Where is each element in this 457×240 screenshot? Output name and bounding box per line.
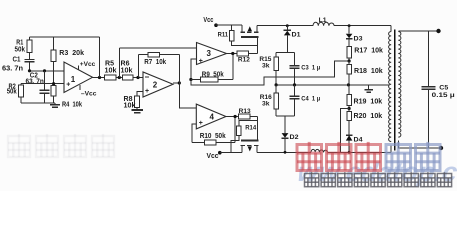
label R12 (238, 57, 250, 64)
svg-text:+: + (199, 120, 203, 127)
wire op3 plus input lead (191, 59, 197, 80)
label C1 63.7n (2, 56, 23, 72)
wire op2 output down to op4 (179, 83, 196, 108)
diode D2 (282, 116, 289, 153)
node output plus terminal (436, 29, 440, 33)
label R5 10k (105, 60, 117, 74)
svg-text:D2: D2 (290, 134, 299, 141)
node op2 output (178, 81, 181, 84)
wire op2 output (173, 82, 179, 84)
diode D3 (346, 26, 353, 47)
svg-text:D4: D4 (354, 137, 363, 144)
resistor R5 (105, 75, 123, 80)
wire op1 non-inverting input line (21, 83, 64, 85)
node D4 rail (348, 151, 351, 154)
node ground bus chain (347, 83, 350, 86)
svg-text:C4 1 μ: C4 1 μ (301, 95, 320, 102)
wire feedback vertical to rail (99, 37, 101, 78)
transformer core (394, 30, 396, 151)
node op1 output feedback (98, 76, 101, 79)
wire ground bus left (21, 102, 55, 104)
resistor R13 (239, 114, 258, 119)
svg-text:R3 20k: R3 20k (59, 50, 84, 57)
label D1 (292, 32, 301, 39)
svg-text:3: 3 (207, 49, 212, 58)
op-amp U4 (196, 104, 226, 129)
node R5 R6 junction (118, 76, 121, 79)
node D2 rail (284, 151, 287, 154)
node R17 R18 (348, 59, 351, 62)
capacitor C4 (290, 85, 300, 116)
wire junction up to op3 line (118, 48, 120, 78)
wire gate Q1 (256, 37, 258, 53)
svg-text:10k: 10k (124, 102, 136, 109)
transistor Q1 (241, 25, 259, 37)
label C2 63.7n (26, 72, 44, 85)
node Vcc bottom terminal (218, 151, 222, 155)
svg-text:R7 10k: R7 10k (144, 59, 166, 66)
svg-text:R14: R14 (245, 125, 256, 132)
svg-text:R6: R6 (121, 60, 130, 67)
wire secondary top to output (398, 30, 438, 32)
resistor R7 feedback loop (139, 52, 180, 77)
label Vcc bottom (207, 153, 219, 160)
label R16 3k (260, 94, 272, 108)
label R2 50k (7, 84, 17, 96)
svg-text:R17 10k: R17 10k (354, 48, 383, 55)
wire line A from op3 plus node to R17 R18 junction (191, 61, 349, 85)
svg-text:0.15 μ: 0.15 μ (432, 92, 455, 99)
node R19 R20 (348, 107, 351, 110)
node R15 R16 (275, 83, 278, 86)
svg-text:R5: R5 (105, 60, 114, 67)
wire op2 plus input to R8 (137, 92, 143, 97)
resistor R2 (19, 84, 24, 103)
watermark faint bottom-left logo (8, 134, 114, 157)
svg-text:50k: 50k (15, 47, 26, 54)
wire Vcc bottom rail (220, 152, 242, 154)
svg-text:R1: R1 (16, 40, 23, 47)
svg-text:+: + (145, 88, 149, 95)
label R8 10k (124, 96, 136, 109)
svg-text:R11: R11 (218, 31, 229, 38)
ground left (50, 103, 60, 107)
resistor R14 (231, 120, 258, 152)
ground R8 (132, 110, 144, 113)
watermark gray slogan (305, 172, 452, 187)
transformer T1 primary winding (389, 32, 392, 142)
wire snubber2 bottom (276, 115, 294, 117)
capacitor C3 (290, 52, 300, 85)
svg-text:C1: C1 (13, 56, 21, 63)
wire Q1 drain to transformer (257, 26, 391, 32)
svg-text:R12: R12 (238, 57, 250, 64)
node D1 branch (286, 24, 289, 27)
diode D4 (346, 135, 353, 152)
svg-text:50k: 50k (7, 89, 17, 96)
label C5 0.15u (432, 85, 455, 100)
wire op1 inverting input line (30, 70, 65, 72)
wire Q2 drain rail (257, 145, 391, 152)
resistor R8 (135, 96, 140, 110)
svg-text:R20 10k: R20 10k (354, 113, 383, 120)
node R3 R4 divider (52, 82, 55, 85)
wire top feedback rail (30, 36, 100, 38)
svg-text:+: + (199, 58, 203, 65)
node C1 to input (28, 69, 31, 72)
transformer T1 secondary winding (398, 32, 401, 138)
label R9 50k (202, 71, 224, 78)
svg-text:L1: L1 (319, 17, 327, 24)
node op4 output (234, 115, 237, 118)
diode D1 (284, 26, 291, 53)
svg-text:63. 7n: 63. 7n (2, 65, 23, 72)
wire op3 output (227, 53, 238, 55)
resistor R19 (347, 85, 352, 109)
wire R19 R20 branch to bottom rail (340, 109, 349, 153)
transistor Q2 (241, 141, 259, 153)
svg-text:2: 2 (153, 80, 158, 89)
svg-text:4: 4 (210, 113, 215, 122)
svg-text:3k: 3k (262, 100, 270, 107)
label R11 (218, 31, 229, 38)
resistor R3 (51, 37, 56, 84)
resistor R9 (191, 54, 233, 82)
label R17 10k (354, 48, 383, 55)
label C3 1u (301, 65, 320, 72)
svg-text:R19 10k: R19 10k (354, 98, 383, 105)
inductor L2 (311, 149, 328, 152)
label R3 20k (59, 50, 84, 57)
svg-text:C5: C5 (439, 85, 448, 92)
node C2 branch (43, 69, 46, 72)
ground middle (364, 85, 373, 92)
wire gate Q2 (256, 117, 258, 141)
svg-text:10k: 10k (105, 67, 117, 74)
node op3 plus input (189, 78, 192, 81)
label R7 10k (144, 59, 166, 66)
node R6 op2 input (136, 76, 139, 79)
label R19 10k (354, 98, 383, 105)
resistor R6 (123, 75, 143, 80)
capacitor C2 (40, 71, 50, 103)
svg-text:+: + (66, 82, 70, 89)
resistor R17 (347, 46, 352, 61)
label R6 10k (121, 60, 133, 74)
wire op4 plus input to R10 (192, 124, 196, 143)
resistor R4 (51, 86, 56, 104)
svg-text:+Vcc: +Vcc (80, 61, 96, 68)
svg-text:D1: D1 (292, 32, 301, 39)
label R4 10k (62, 102, 82, 109)
resistor R15 (274, 52, 279, 85)
wire secondary bottom to output (398, 141, 441, 149)
inductor L1 (313, 22, 334, 25)
wire snubber1 top (276, 51, 294, 53)
label D4 (354, 137, 363, 144)
op1 +Vcc pin (78, 61, 95, 70)
node D3 branch (348, 24, 351, 27)
resistor R1 (27, 37, 32, 59)
wire to op3 inverting input (119, 47, 196, 49)
watermark blue characters (386, 142, 440, 171)
node C3 C4 (293, 83, 296, 86)
node output minus terminal (439, 146, 443, 150)
label R15 3k (259, 56, 271, 69)
wire R7 right vertical (178, 55, 180, 83)
svg-text:R13: R13 (239, 108, 251, 115)
label R13 (239, 108, 251, 115)
label L1 (319, 17, 327, 24)
label C4 1u (301, 95, 320, 102)
label D3 (354, 36, 363, 43)
capacitor C5 (422, 31, 436, 148)
watermark blue url (296, 156, 457, 187)
wire ground bus middle (276, 84, 389, 86)
node op3 output (231, 52, 234, 55)
svg-text:R4 10k: R4 10k (62, 102, 82, 109)
resistor R18 (347, 61, 352, 85)
resistor R10 (192, 117, 235, 145)
node Vcc top terminal (214, 23, 218, 27)
svg-text:1: 1 (71, 75, 76, 84)
op-amp U2 (143, 72, 173, 97)
capacitor C1 (25, 60, 35, 71)
svg-text:–Vcc: –Vcc (81, 90, 97, 97)
watermark red characters (297, 142, 381, 171)
label R20 10k (354, 113, 383, 120)
resistor R12 (237, 51, 257, 56)
wire op1 output (93, 77, 105, 79)
svg-text:63. 7n: 63. 7n (26, 78, 44, 85)
op1 -Vcc pin (80, 85, 97, 97)
wire Vcc top rail (216, 24, 242, 26)
op-amp U3 (197, 43, 227, 66)
svg-text:R9 50k: R9 50k (202, 71, 224, 78)
label D2 (290, 134, 299, 141)
svg-text:3k: 3k (262, 62, 270, 69)
svg-text:C3 1 μ: C3 1 μ (301, 65, 320, 72)
label Vcc top (203, 17, 213, 24)
svg-text:D3: D3 (354, 36, 363, 43)
svg-text:R18 10k: R18 10k (354, 68, 383, 75)
svg-text:R10 50k: R10 50k (200, 133, 226, 140)
svg-text:Vcc: Vcc (203, 17, 213, 24)
label R18 10k (354, 68, 383, 75)
label R1 50k (15, 40, 26, 54)
resistor R11 (229, 25, 257, 46)
label R14 (245, 125, 256, 132)
label R10 50k (200, 133, 226, 140)
svg-text:10k: 10k (121, 67, 133, 74)
svg-text:Vcc: Vcc (207, 153, 219, 160)
resistor R16 (274, 85, 279, 116)
op-amp U1 (64, 62, 93, 93)
resistor R20 (347, 109, 352, 135)
wire op4 output (226, 116, 239, 118)
